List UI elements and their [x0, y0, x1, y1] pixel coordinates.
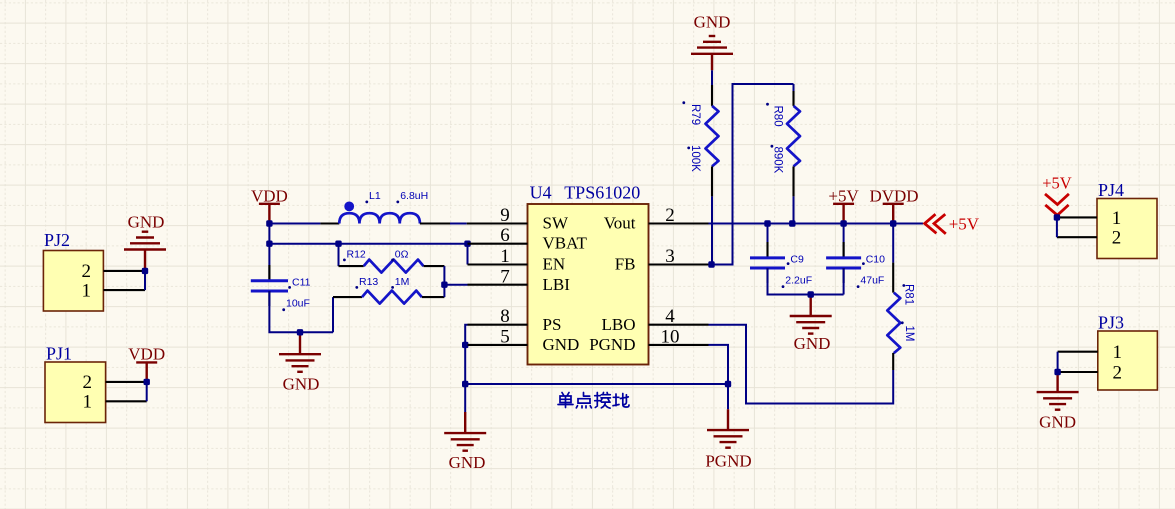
svg-text:3: 3 [665, 246, 675, 267]
svg-text:R13: R13 [359, 276, 378, 288]
svg-text:100K: 100K [689, 145, 701, 172]
connector PJ2 body [43, 251, 103, 312]
pin name FB [615, 255, 636, 274]
power port GND label top [694, 13, 731, 32]
junction DVDD R81 node [890, 220, 896, 226]
capacitor C9 pin top [766, 242, 768, 258]
junction VDD node [266, 220, 272, 226]
wire GND to R79 top [711, 70, 713, 85]
resistor R12 right pin [424, 265, 445, 267]
wire R81 bottom [892, 353, 894, 370]
capacitor C9 plates [750, 258, 785, 268]
svg-text:SW: SW [543, 214, 569, 233]
connector PJ1 pin 1 number [83, 392, 93, 413]
svg-text:1: 1 [1113, 342, 1123, 363]
resistor R81 zigzag [887, 293, 900, 354]
ic U4 pin 3 stub [649, 263, 709, 265]
junction +5V C10 node [840, 220, 846, 226]
svg-text:0Ω: 0Ω [395, 248, 409, 260]
inductor L1 designator [365, 190, 380, 204]
pin number 2 [665, 205, 675, 226]
wire R13 right to LBI junction [443, 285, 445, 297]
ic U4 pin 2 stub [649, 222, 709, 224]
connector PJ2 designator [44, 230, 70, 250]
pin name Vout [604, 214, 636, 233]
resistor R13 zigzag [362, 291, 422, 304]
svg-text:GND: GND [1039, 413, 1076, 432]
junction VBAT corner node [266, 241, 272, 247]
wire VDD node down to VBAT rail [268, 224, 270, 244]
power port GND symbol below C9 C10 [790, 295, 832, 334]
wire C10 bottom [843, 268, 845, 295]
power port GND label below C11 [283, 375, 320, 394]
power port VDD symbol main [259, 204, 280, 224]
wire C10 top lead [843, 224, 845, 258]
junction PJ4 node [1054, 214, 1060, 220]
power port DVDD label [869, 186, 918, 205]
wire PJ4 pin junction [1056, 217, 1058, 237]
resistor R79 value [687, 145, 701, 172]
power port GND label below pin5 [449, 453, 486, 472]
resistor R13 designator [355, 276, 378, 289]
inductor L1 value [396, 190, 428, 204]
svg-text:PJ2: PJ2 [44, 230, 70, 250]
resistor R80 zigzag [787, 106, 800, 166]
pin number 3 [665, 246, 675, 267]
svg-text:+5V: +5V [828, 186, 859, 205]
power port GND symbol below PJ3 [1037, 372, 1079, 410]
power port VDD label main [251, 187, 288, 206]
svg-text:GND: GND [794, 334, 831, 353]
wire VDD to L1 black segment [320, 222, 339, 224]
wire GND rail up to R13 left [332, 297, 334, 332]
resistor R80 designator [766, 103, 783, 127]
svg-text:7: 7 [500, 266, 510, 287]
svg-text:1: 1 [82, 281, 92, 302]
connector PJ1 designator [46, 344, 72, 364]
resistor R81 top pin [892, 263, 894, 293]
junction EN VBAT node [464, 241, 470, 247]
svg-text:R81: R81 [903, 284, 915, 305]
pin name LBO [602, 315, 636, 334]
wire PJ2 pin1 to pin2 junction [144, 271, 146, 290]
svg-text:PJ3: PJ3 [1098, 313, 1124, 333]
connector PJ2 pin 2 line [103, 270, 145, 272]
resistor R80 bottom pin [792, 166, 794, 196]
svg-text:C11: C11 [292, 277, 311, 289]
resistor R79 bottom pin [711, 166, 713, 196]
pin number 8 [500, 306, 510, 327]
note single point ground text [558, 393, 629, 409]
ic U4 pin 9 stub [467, 222, 528, 224]
junction R12 VBAT node [335, 241, 341, 247]
svg-text:PJ1: PJ1 [46, 344, 72, 364]
pin number 9 [500, 205, 510, 226]
wire FB rail [709, 84, 794, 265]
wire C9 bottom [768, 268, 844, 295]
inductor L1 arcs [339, 213, 420, 223]
power port GND symbol top [691, 36, 733, 70]
svg-text:9: 9 [500, 205, 510, 226]
resistor R81 designator [902, 284, 914, 305]
power port DVDD symbol [883, 204, 904, 224]
connector PJ4 designator [1098, 180, 1124, 200]
resistor R79 zigzag [706, 106, 719, 166]
ic U4 pin 4 stub [649, 324, 709, 326]
power port PGND symbol [707, 384, 749, 448]
connector PJ2 pin 1 line [103, 289, 145, 291]
svg-text:1: 1 [83, 392, 93, 413]
svg-text:5: 5 [500, 326, 510, 347]
resistor R13 left pin [333, 296, 362, 298]
connector PJ4 pin 2 line [1057, 236, 1097, 238]
ic U4 pin 6 stub [468, 243, 528, 245]
resistor R12 zigzag [364, 260, 424, 273]
connector PJ3 body [1098, 331, 1158, 390]
power port VDD symbol above PJ1 [136, 362, 157, 382]
pin name VBAT [543, 234, 588, 253]
svg-text:890K: 890K [772, 147, 784, 174]
junction PJ2 node [142, 268, 148, 274]
resistor R12 designator [343, 248, 366, 261]
svg-text:47uF: 47uF [860, 274, 884, 286]
power port +5V arrow above PJ4 [1045, 194, 1069, 215]
svg-text:L1: L1 [369, 190, 381, 202]
connector PJ3 pin 2 number [1113, 362, 1123, 383]
pin number 10 [661, 326, 680, 347]
connector PJ2 pin 1 number [82, 281, 92, 302]
svg-text:PJ4: PJ4 [1098, 180, 1124, 200]
connector PJ3 pin 1 number [1113, 342, 1123, 363]
resistor R13 value [391, 276, 409, 289]
wire GND pin 5 [465, 344, 467, 346]
capacitor C11 plates [251, 281, 288, 291]
wire VBAT to EN [467, 244, 469, 265]
ic U4 pin 1 stub [468, 263, 528, 265]
wire R80 top lead [793, 84, 795, 91]
svg-text:PS: PS [543, 315, 562, 334]
svg-text:6: 6 [500, 225, 510, 246]
svg-text:FB: FB [615, 255, 636, 274]
pin name GND [543, 335, 580, 354]
connector PJ4 pin 1 line [1057, 216, 1097, 218]
ic U4 pin 7 stub [468, 284, 528, 286]
connector PJ1 body [45, 362, 106, 423]
wire C11 top lead [268, 244, 270, 281]
svg-text:U4: U4 [530, 182, 552, 202]
capacitor C10 designator [862, 253, 885, 265]
svg-text:6.8uH: 6.8uH [400, 190, 428, 202]
svg-text:2: 2 [1112, 228, 1122, 249]
capacitor C10 value [857, 274, 885, 288]
capacitor C9 value [782, 274, 813, 288]
capacitor C11 pin bottom [268, 291, 270, 306]
capacitor C10 plates [826, 258, 861, 268]
wire LBI junction to pin 7 [444, 284, 467, 286]
svg-text:2: 2 [83, 372, 93, 393]
ic U4 pin 10 stub [649, 344, 709, 346]
svg-text:2.2uF: 2.2uF [785, 274, 812, 286]
pin number 6 [500, 225, 510, 246]
resistor R81 value [901, 321, 915, 341]
svg-text:C9: C9 [790, 253, 804, 265]
pin number 7 [500, 266, 510, 287]
wire VBAT rail [269, 243, 467, 245]
capacitor C10 pin bottom [843, 268, 845, 283]
op-amp U4 part number [564, 182, 640, 202]
svg-text:GND: GND [543, 335, 580, 354]
connector PJ4 pin 1 number [1112, 208, 1122, 229]
pin name LBI [543, 275, 571, 294]
wire R12 right to LBI junction [443, 266, 445, 285]
pin number 1 [500, 246, 510, 267]
resistor R80 value [771, 145, 784, 174]
svg-text:10: 10 [661, 326, 680, 347]
power port +5V symbol [833, 204, 854, 224]
junction PJ1 node [144, 379, 150, 385]
svg-text:VDD: VDD [128, 345, 165, 364]
pin name PGND [589, 335, 635, 354]
junction GND node below C11 [297, 329, 303, 335]
junction PJ3 node [1054, 369, 1060, 375]
capacitor C11 designator [288, 277, 310, 289]
ic U4 body [528, 204, 649, 365]
svg-text:1M: 1M [903, 326, 915, 342]
svg-text:R80: R80 [772, 106, 784, 127]
svg-text:PGND: PGND [589, 335, 635, 354]
junction single point ground left [462, 381, 468, 387]
svg-text:GND: GND [449, 453, 486, 472]
connector PJ4 pin 2 number [1112, 228, 1122, 249]
svg-text:+5V: +5V [949, 214, 980, 233]
pin name EN [543, 255, 566, 274]
port +5V label [949, 214, 980, 233]
power port GND symbol above PJ2 [124, 232, 166, 271]
svg-text:Vout: Vout [604, 214, 636, 233]
wire VBAT to R12 left lead [338, 244, 340, 266]
connector PJ1 pin 2 number [83, 372, 93, 393]
wire R79 bottom to FB [711, 196, 713, 264]
svg-text:1M: 1M [395, 276, 410, 288]
svg-text:+5V: +5V [1042, 173, 1072, 192]
capacitor C11 value [282, 298, 310, 312]
svg-text:2: 2 [82, 261, 92, 282]
connector PJ1 pin 1 line [106, 400, 147, 402]
connector PJ4 body [1097, 199, 1157, 259]
svg-text:1: 1 [500, 246, 510, 267]
svg-text:R79: R79 [689, 104, 701, 125]
wire R80 bottom to Vout rail [793, 196, 795, 223]
svg-text:EN: EN [543, 255, 566, 274]
connector PJ3 pin 2 line [1058, 371, 1098, 373]
connector PJ3 designator [1098, 313, 1124, 333]
resistor R13 right pin [422, 296, 445, 298]
connector PJ2 pin 2 number [82, 261, 92, 282]
ic U4 pin 5 stub [468, 344, 528, 346]
svg-text:10uF: 10uF [286, 298, 310, 310]
svg-text:LBI: LBI [543, 275, 571, 294]
power port VDD label above PJ1 [128, 345, 165, 364]
wire VDD node to L1 [269, 223, 320, 225]
power port +5V label above PJ4 [1042, 173, 1072, 192]
power port PGND label [705, 452, 751, 471]
power port GND symbol below pin5 [444, 384, 486, 451]
pin name SW [543, 214, 569, 233]
op-amp U4 designator [530, 182, 552, 202]
pin number 5 [500, 326, 510, 347]
svg-text:VBAT: VBAT [543, 234, 588, 253]
ic U4 pin 8 stub [468, 324, 528, 326]
svg-text:PGND: PGND [705, 452, 751, 471]
svg-text:R12: R12 [347, 248, 366, 260]
pin number 4 [665, 306, 675, 327]
wire Vout rail [709, 223, 924, 225]
wire single point ground rail [465, 383, 728, 385]
power port GND label below PJ3 [1039, 413, 1076, 432]
svg-text:4: 4 [665, 306, 675, 327]
junction pin5 node [462, 342, 468, 348]
svg-text:TPS61020: TPS61020 [564, 182, 640, 202]
svg-text:C10: C10 [866, 253, 885, 265]
resistor R79 designator [682, 101, 701, 125]
port +5V chevrons [925, 214, 946, 234]
wire PJ3 pin junction [1057, 352, 1059, 372]
wire LBO path [709, 325, 894, 404]
capacitor C9 designator [787, 253, 804, 265]
svg-text:2: 2 [1113, 362, 1123, 383]
power port GND label above PJ2 [128, 213, 165, 232]
junction R80 Vout node [789, 220, 795, 226]
svg-text:2: 2 [665, 205, 675, 226]
wire C11 bottom to GND rail [269, 291, 333, 332]
svg-text:DVDD: DVDD [869, 186, 918, 205]
wire C9 top lead [767, 224, 769, 258]
connector PJ1 pin 2 line [106, 381, 147, 383]
svg-text:1: 1 [1112, 208, 1122, 229]
capacitor C10 pin top [843, 242, 845, 258]
wire PGND pin 10 [709, 345, 729, 384]
junction single point ground right [725, 381, 731, 387]
svg-text:8: 8 [500, 306, 510, 327]
junction C9 Vout node [764, 220, 770, 226]
wire PJ1 pin1 to pin2 junction [146, 382, 148, 401]
pin name PS [543, 315, 562, 334]
junction C9 C10 gnd node [808, 291, 814, 297]
resistor R79 top pin [711, 85, 713, 106]
connector PJ3 pin 1 line [1058, 351, 1098, 353]
resistor R80 top pin [792, 91, 794, 106]
svg-text:LBO: LBO [602, 315, 636, 334]
svg-text:GND: GND [283, 375, 320, 394]
capacitor C11 pin top [268, 265, 270, 281]
inductor L1 polarity dot [344, 202, 354, 212]
junction LBI node [441, 282, 447, 288]
svg-text:GND: GND [694, 13, 731, 32]
power port GND label below C9 C10 [794, 334, 831, 353]
junction FB node [708, 261, 714, 267]
wire DVDD to R81 top [892, 224, 894, 263]
svg-text:GND: GND [128, 213, 165, 232]
power port GND symbol below C11 [279, 332, 321, 372]
capacitor C9 pin bottom [766, 268, 768, 283]
power port +5V label [828, 186, 859, 205]
resistor R12 value [391, 248, 408, 261]
wire PS pin 8 chain [465, 325, 467, 384]
resistor R12 left pin [339, 265, 364, 267]
wire L1 to pin 9 [420, 222, 467, 224]
